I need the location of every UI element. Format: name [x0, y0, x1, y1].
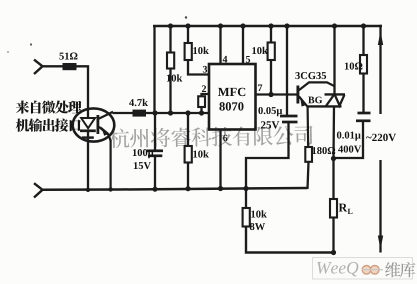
wire bus to R3	[169, 26, 171, 53]
input terminal T1	[34, 60, 43, 74]
optocoupler envelope	[73, 108, 115, 141]
node B junction dot	[331, 156, 336, 161]
label 100μ	[133, 149, 154, 158]
transistor Q1 collector	[299, 82, 335, 90]
wire bus to R4	[187, 26, 189, 44]
resistor R9 180Ω	[305, 147, 312, 162]
wire pin 7	[256, 93, 298, 95]
label 15V	[134, 162, 151, 169]
ground bus dot at pin 6	[218, 186, 223, 191]
label 10Ω	[345, 63, 363, 70]
label 来自微处理 (line 1)	[16, 100, 82, 113]
wire R8 to bottom bus	[246, 227, 334, 253]
label R7 10k	[252, 47, 267, 54]
opto transistor base bar	[97, 115, 100, 134]
transistor Q1 base bar	[296, 86, 299, 104]
capacitor C3 plate 1	[358, 112, 371, 115]
resistor R3 10k	[167, 53, 174, 69]
WeeQoo o2	[371, 266, 380, 275]
transistor Q1 emitter arrowhead	[300, 96, 307, 107]
resistor R8 10k 8W	[243, 208, 250, 227]
resistor R6 (pin 2)	[198, 96, 205, 107]
wire T1 to R1	[42, 65, 64, 67]
ground bus dot at emitter	[108, 187, 112, 191]
wire R7 to pin 7	[270, 60, 272, 95]
input terminal T2	[34, 183, 43, 197]
opto LED anode lead	[87, 108, 89, 119]
label 25V	[261, 121, 279, 128]
wire triac to node B	[332, 106, 335, 158]
ground bus dot at C1	[152, 187, 157, 192]
resistor R5 10k	[185, 146, 192, 163]
triac top bar	[325, 93, 346, 95]
resistor R2 4.7k	[133, 110, 147, 117]
wire node A to C1	[154, 113, 156, 151]
resistor R1 51Ω	[63, 63, 77, 70]
label 3CG35	[295, 72, 326, 79]
capacitor C2 plate 1	[280, 115, 298, 118]
wire node B to C3	[334, 121, 364, 158]
wire C2-node to R8	[245, 189, 247, 209]
opto transistor collector	[99, 112, 113, 119]
resistor RL	[330, 199, 337, 218]
label pin 4	[223, 56, 228, 63]
wire C1 to ground bus	[154, 156, 156, 190]
WeeQoo watermark box	[313, 258, 413, 280]
wire pin 5	[242, 26, 244, 64]
scan speck 1	[30, 43, 32, 45]
wire top supply bus	[153, 25, 382, 28]
wire R10 to C3	[362, 74, 364, 114]
node A junction dot at R3	[168, 110, 173, 115]
IC U1 MFC8070 box	[209, 64, 256, 130]
AC arrow down	[378, 236, 383, 250]
top bus dot at R3	[168, 23, 173, 28]
resistor R7 10k	[268, 43, 275, 61]
label 机输出接口 (line 2)	[16, 118, 81, 131]
wire ground bus	[42, 188, 308, 190]
label 8070	[219, 102, 243, 110]
scan speck 2	[7, 51, 9, 53]
WeeQoo 维库	[385, 262, 415, 277]
wire node A to R5	[187, 113, 189, 147]
scan speck 3	[185, 16, 187, 18]
pin7 junction dot at R7	[268, 92, 273, 97]
ground bus dot at LED cathode	[86, 188, 90, 192]
wire bus-left down to node A	[153, 25, 155, 113]
ground bus dot at C2 return	[243, 186, 248, 191]
label 51Ω	[59, 53, 77, 60]
label 400V	[338, 146, 361, 153]
WeeQoo text	[317, 262, 358, 276]
top bus dot at pin 5	[240, 23, 245, 28]
label 0.05μ	[258, 107, 282, 116]
label ~220V	[365, 127, 402, 144]
capacitor C1 100μ plate 1	[147, 149, 163, 152]
wire R4 to pin 3	[188, 60, 209, 75]
top bus dot at R7	[268, 23, 273, 28]
wire C2 return	[246, 122, 289, 189]
wire R5 to ground bus	[187, 163, 189, 190]
capacitor C2 plate 2	[282, 121, 298, 124]
AC arrow up	[378, 31, 383, 45]
wire bus to C2	[286, 26, 288, 116]
wire node A horizontal	[113, 112, 210, 114]
opto transistor emitter	[99, 127, 111, 189]
wire RL to bottom bus	[332, 218, 334, 254]
label 180Ω	[312, 147, 335, 154]
wire pin 6	[219, 130, 221, 190]
label 0.01μ	[337, 132, 361, 141]
resistor R10 10Ω	[360, 55, 367, 74]
node A junction dot at R6	[199, 110, 204, 115]
wire R9 to ground bus	[308, 162, 309, 189]
bottom bus dot at RL	[331, 250, 336, 255]
label R3 10k	[167, 74, 182, 81]
opto LED triangle	[81, 118, 95, 128]
label R8 10k	[251, 210, 266, 217]
top bus dot at R10	[361, 23, 366, 28]
opto LED second bar	[82, 136, 94, 139]
node A junction dot at C1 branch	[152, 110, 157, 115]
capacitor C3 plate 2	[356, 119, 371, 122]
opto LED cathode bar	[80, 129, 96, 132]
resistor R4 10k	[185, 43, 192, 60]
wire bus to R7	[270, 26, 272, 43]
label pin 3	[203, 66, 207, 73]
label pin 6	[223, 135, 227, 141]
ground bus dot at R5	[185, 186, 190, 191]
wire AC right vertical lower	[379, 160, 381, 253]
label R8 8W	[250, 223, 265, 230]
wire pin 4	[219, 26, 221, 64]
opto emitter arrowhead	[101, 127, 110, 136]
wire node B to RL	[332, 158, 334, 200]
wire pin 2	[202, 94, 210, 97]
WeeQoo o1	[362, 266, 371, 275]
label MFC	[218, 88, 245, 96]
label pin 2	[202, 85, 206, 92]
label 4.7k	[129, 99, 148, 106]
triac gate wire and bottom bar	[308, 105, 342, 107]
wire AC right vertical upper	[379, 25, 381, 114]
wire bus to triac	[333, 26, 335, 95]
label R5 10k	[193, 150, 208, 157]
label pin 5	[246, 56, 250, 63]
top bus dot at C2 branch	[284, 23, 289, 28]
opto LED cathode lead	[87, 130, 89, 191]
wire bus to R10	[362, 26, 364, 56]
watermark company text	[109, 125, 313, 148]
label RL	[339, 204, 348, 212]
transistor Q1 emitter	[299, 96, 308, 147]
capacitor C1 100μ plate 2	[148, 154, 162, 157]
label R4 10k	[193, 47, 208, 54]
node A junction dot at R5	[185, 110, 190, 115]
wire R3 to node A	[169, 69, 171, 114]
top bus dot at R4	[185, 23, 190, 28]
wire R6 to node A	[200, 107, 202, 113]
top bus dot at pin 4	[218, 23, 223, 28]
label BG	[308, 97, 322, 104]
triac left diagonal	[326, 95, 334, 106]
triac right triangle	[335, 95, 345, 106]
label pin 7	[258, 84, 262, 91]
WeeQoo strike line	[362, 269, 383, 271]
wire R1 to opto	[76, 66, 88, 110]
top bus dot at triac	[332, 23, 337, 28]
